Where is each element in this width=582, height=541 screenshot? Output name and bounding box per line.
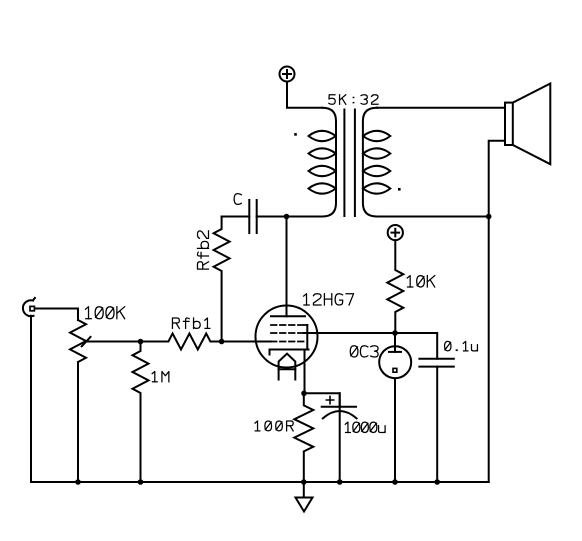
tube 12HG7 envelope <box>256 306 318 368</box>
label 10K <box>407 276 434 287</box>
node rail/0C3 <box>392 479 398 485</box>
wire ground rail <box>31 481 489 483</box>
wire secondary top to speaker <box>377 107 505 109</box>
terminal B+ top <box>280 67 295 82</box>
speaker LS1 <box>505 84 550 165</box>
node rail/100R <box>301 479 307 485</box>
wire jack tip to pot <box>36 309 79 321</box>
tube heater <box>279 354 296 380</box>
tube grid g3 dashes <box>271 324 307 326</box>
wire speaker bottom <box>489 141 505 217</box>
ground <box>296 482 313 512</box>
resistor 100R <box>294 393 313 482</box>
tube plate bar <box>271 315 305 317</box>
wire pot bottom <box>77 362 79 482</box>
transformer core <box>344 110 355 217</box>
tube 0C3 <box>379 333 411 482</box>
label 12HG7 <box>304 294 354 305</box>
node rail/0.1u <box>434 479 440 485</box>
wire B+ to primary <box>287 82 322 108</box>
node plate/C/primary <box>284 214 290 220</box>
wire secondary bottom <box>377 216 489 218</box>
tube grid g2 dashes <box>271 332 304 334</box>
polarity dot secondary <box>398 188 401 191</box>
wire primary bottom <box>287 216 323 218</box>
node rail/1M <box>138 479 144 485</box>
label 100K <box>85 307 124 319</box>
wire plate <box>286 217 288 317</box>
node grid/Rfb1/Rfb2 <box>219 339 225 345</box>
tube g3-cathode link <box>306 325 308 350</box>
label Rfb2 <box>197 231 208 269</box>
node rail/1000u <box>337 479 343 485</box>
wire pot wiper <box>87 341 141 343</box>
resistor 10K <box>387 240 403 333</box>
terminal B+ screen <box>388 225 403 240</box>
capacitor C <box>222 200 287 233</box>
wire grid <box>222 341 271 343</box>
wire speaker return down <box>488 217 490 483</box>
capacitor 0.1u <box>419 359 453 482</box>
node screen/10K <box>392 330 398 336</box>
label 0C3 <box>350 346 378 357</box>
capacitor 1000u <box>322 393 357 482</box>
polarity dot primary <box>294 133 297 136</box>
node wiper/1M/Rfb1 <box>138 339 144 345</box>
label 100R <box>255 421 293 431</box>
label Rfb1 <box>172 318 209 328</box>
node rail/pot <box>75 479 81 485</box>
label 1000u <box>345 422 385 432</box>
wire jack sleeve down <box>30 316 32 482</box>
label 1M <box>152 372 169 382</box>
input jack J1 <box>23 298 35 316</box>
transformer T1 secondary <box>363 108 390 217</box>
label 5K:32 <box>329 95 378 105</box>
resistor Rfb2 <box>214 217 230 342</box>
node speaker return <box>486 214 492 220</box>
tube cathode bar <box>270 350 309 355</box>
resistor 1M <box>133 342 149 483</box>
potentiometer R 100K <box>70 320 91 362</box>
label C <box>234 194 241 205</box>
node cathode/100R/1000u <box>301 391 307 397</box>
resistor Rfb1 <box>141 334 222 350</box>
tube grid g1 dashes <box>271 341 304 343</box>
wire cathode <box>304 350 306 394</box>
label 0.1u <box>445 341 478 351</box>
wire cathode to 1000u <box>304 393 340 406</box>
wire screen g2 <box>304 333 437 359</box>
transformer T1 primary <box>309 108 337 217</box>
